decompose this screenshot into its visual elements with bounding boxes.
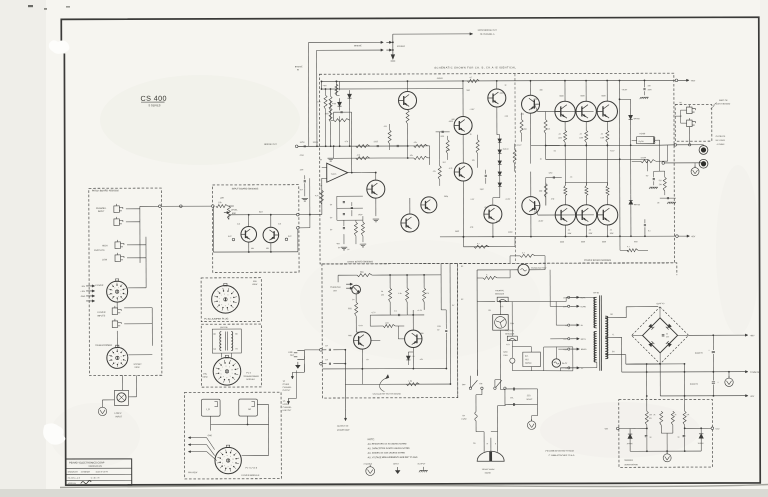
svg-text:DRIVE BOARD 59000600: DRIVE BOARD 59000600: [348, 260, 374, 263]
svg-text:10W: 10W: [589, 233, 593, 235]
svg-text:NOTE:: NOTE:: [368, 439, 375, 441]
svg-text:100k: 100k: [325, 113, 329, 115]
svg-text:-80V: -80V: [750, 396, 755, 398]
svg-text:COMMON: COMMON: [750, 372, 760, 374]
svg-text:4.7k: 4.7k: [345, 141, 349, 143]
svg-text:0/50: 0/50: [634, 241, 638, 243]
svg-text:PART OF: PART OF: [719, 99, 728, 102]
svg-text:10W: 10W: [610, 233, 614, 235]
svg-text:15k: 15k: [649, 414, 652, 416]
svg-text:MATCH BOARD: MATCH BOARD: [716, 102, 731, 105]
svg-text:1N3050: 1N3050: [698, 443, 704, 445]
svg-text:6609: 6609: [581, 241, 585, 243]
svg-text:OUTPUTS: OUTPUTS: [94, 250, 105, 252]
svg-text:HIGH: HIGH: [102, 245, 108, 247]
svg-text:0.1: 0.1: [394, 311, 397, 313]
svg-text:50: 50: [437, 329, 439, 331]
svg-text:1OO: 1OO: [563, 306, 567, 308]
svg-text:120VAC MAIN/: 120VAC MAIN/: [482, 468, 495, 471]
svg-text:2k: 2k: [381, 291, 383, 293]
svg-text:C 13886 ATTACHED TO A.G.: C 13886 ATTACHED TO A.G.: [549, 454, 576, 457]
svg-text:.33: .33: [567, 229, 570, 231]
svg-text:HI: HI: [248, 408, 251, 411]
svg-text:0/50: 0/50: [549, 173, 553, 175]
svg-text:10: 10: [231, 369, 233, 371]
svg-text:4 OHMS: 4 OHMS: [717, 144, 725, 146]
svg-text:BL/YL: BL/YL: [581, 297, 586, 299]
svg-text:8: 8: [121, 356, 122, 358]
svg-text:PILOT: PILOT: [562, 363, 568, 365]
svg-text:S SERIES: S SERIES: [149, 103, 161, 107]
svg-text:PIN: PIN: [253, 281, 257, 283]
svg-text:680: 680: [452, 119, 455, 121]
svg-text:1N3050: 1N3050: [627, 443, 633, 445]
svg-text:3S/13V: 3S/13V: [503, 149, 510, 151]
svg-text:1.3k: 1.3k: [398, 293, 402, 295]
svg-text:+15V: +15V: [715, 428, 720, 430]
svg-text:50VAC: 50VAC: [526, 398, 532, 401]
svg-text:680: 680: [251, 248, 254, 250]
svg-text:CHANNEL: CHANNEL: [283, 386, 292, 389]
svg-text:+0.5V: +0.5V: [610, 150, 616, 152]
svg-text:10: 10: [230, 297, 232, 299]
svg-text:LED: LED: [333, 290, 337, 292]
svg-text:52-5W: 52-5W: [641, 157, 647, 159]
svg-text:590/560: 590/560: [525, 363, 532, 365]
svg-text:APPD BY: APPD BY: [68, 482, 77, 485]
svg-text:MOV: MOV: [503, 352, 508, 354]
svg-text:MAINS: MAINS: [485, 472, 492, 475]
svg-text:YL: YL: [612, 334, 614, 336]
svg-text:2k: 2k: [654, 414, 656, 416]
svg-text:FUSE: FUSE: [462, 419, 468, 421]
svg-text:.33: .33: [610, 229, 613, 231]
svg-text:INPUT: INPUT: [393, 464, 400, 466]
svg-text:4.7: 4.7: [627, 246, 630, 248]
svg-text:LEVEL: LEVEL: [231, 210, 239, 212]
svg-text:PL-6A JUMPER PLUG: PL-6A JUMPER PLUG: [204, 318, 228, 321]
svg-text:2.2k: 2.2k: [237, 224, 240, 226]
svg-text:-15V: -15V: [81, 286, 86, 288]
svg-text:CHANNEL: CHANNEL: [283, 406, 292, 409]
svg-text:6: 6: [222, 459, 223, 461]
svg-text:N.C.: N.C.: [500, 306, 504, 308]
svg-text:MODULE: MODULE: [246, 379, 255, 381]
svg-text:56Ω: 56Ω: [348, 308, 352, 310]
svg-text:OVL: OVL: [510, 397, 514, 399]
svg-text:100/: 100/: [437, 326, 441, 328]
svg-text:150: 150: [524, 129, 527, 131]
svg-text:SOCKET: SOCKET: [133, 364, 142, 366]
svg-text:X OVER: X OVER: [97, 312, 106, 314]
svg-text:CHASSIS: CHASSIS: [364, 463, 373, 466]
svg-text:N.C.: N.C.: [228, 236, 232, 238]
svg-text:220Ω: 220Ω: [508, 232, 513, 234]
svg-text:WR750: WR750: [634, 118, 640, 120]
svg-text:PIN: PIN: [203, 374, 207, 376]
svg-text:PL-2: PL-2: [246, 372, 251, 374]
svg-text:+1.3V: +1.3V: [417, 310, 423, 312]
svg-text:8: 8: [121, 290, 122, 292]
svg-text:INPUTS: INPUTS: [97, 315, 106, 317]
svg-text:47k: 47k: [414, 142, 417, 144]
svg-text:TRANSFORMER: TRANSFORMER: [95, 344, 112, 347]
svg-text:50: 50: [650, 437, 652, 439]
svg-text:+80V: +80V: [750, 335, 755, 337]
svg-text:VIEW: VIEW: [202, 377, 207, 379]
svg-text:100: 100: [647, 85, 650, 87]
svg-text:WR750: WR750: [634, 204, 640, 206]
svg-text:PATCH BOARD 49500810: PATCH BOARD 49500810: [92, 189, 120, 192]
svg-text:CK. BY A - 4 H: CK. BY A - 4 H: [68, 477, 81, 480]
svg-text:390: 390: [539, 90, 542, 92]
svg-text:OUTPUTS: OUTPUTS: [716, 136, 726, 138]
svg-text:N.P.: N.P.: [300, 189, 304, 191]
svg-text:(*)C13886 ATTACHED TO 6018: (*)C13886 ATTACHED TO 6018: [545, 449, 574, 452]
svg-text:X OVER: X OVER: [95, 285, 104, 287]
svg-text:+58.6V: +58.6V: [436, 78, 443, 80]
svg-text:8: 8: [227, 455, 228, 457]
svg-text:CR-60: CR-60: [593, 292, 600, 294]
svg-text:X OVER MODULE: X OVER MODULE: [241, 475, 260, 477]
svg-text:LINE OUT: LINE OUT: [283, 410, 293, 412]
svg-text:2W: 2W: [659, 184, 662, 186]
svg-text:0.1: 0.1: [648, 230, 651, 232]
svg-text:OUTPUT: OUTPUT: [283, 390, 292, 392]
svg-text:LOW Z: LOW Z: [115, 413, 123, 415]
svg-text:59000606: 59000606: [624, 460, 632, 462]
svg-text:18O: 18O: [563, 297, 567, 299]
svg-text:4.7: 4.7: [522, 252, 525, 254]
svg-text:BRIDGE OUT: BRIDGE OUT: [264, 144, 277, 146]
svg-text:10W: 10W: [600, 137, 604, 139]
svg-text:GND: GND: [81, 296, 86, 298]
svg-text:680: 680: [266, 248, 269, 250]
svg-text:VOLTAGE REF ON THIS BOARD: VOLTAGE REF ON THIS BOARD: [372, 392, 401, 395]
svg-text:PIN VIEW: PIN VIEW: [188, 472, 197, 474]
svg-text:-80V: -80V: [691, 236, 696, 238]
svg-text:.33: .33: [579, 133, 582, 135]
svg-text:GND: GND: [208, 435, 213, 437]
svg-text:6609: 6609: [602, 241, 606, 243]
svg-text:1.5k: 1.5k: [317, 101, 321, 103]
svg-text:LDR: LDR: [220, 198, 225, 200]
svg-text:10W: 10W: [567, 233, 571, 235]
svg-text:3: 3: [114, 296, 115, 298]
svg-text:ALL DIODES 1N 4148 UNLESS NO: ALL DIODES 1N 4148 UNLESS NOTED: [368, 451, 406, 454]
svg-text:N.P.: N.P.: [443, 162, 447, 164]
svg-text:30: 30: [666, 333, 668, 335]
svg-text:-13.5V: -13.5V: [505, 199, 511, 201]
svg-text:5.6: 5.6: [659, 180, 662, 182]
svg-text:THERMAL: THERMAL: [495, 289, 504, 292]
svg-text:6609: 6609: [581, 95, 585, 97]
svg-text:+36.6V: +36.6V: [621, 89, 628, 91]
svg-text:+80V: +80V: [690, 80, 695, 82]
svg-text:.22Ω: .22Ω: [526, 395, 531, 397]
svg-text:2: 2: [228, 304, 229, 306]
svg-text:10k: 10k: [472, 160, 475, 162]
svg-text:604 106: 604 106: [220, 327, 228, 329]
svg-text:UPPER: UPPER: [283, 404, 290, 406]
svg-text:4.7k: 4.7k: [315, 195, 319, 197]
svg-text:5W: 5W: [649, 418, 652, 420]
svg-text:O/58: O/58: [300, 155, 304, 157]
svg-text:SCHEMATIC SHOWN FOR CH. B,: SCHEMATIC SHOWN FOR CH. B, CH.A IS IDENT…: [434, 65, 516, 69]
svg-text:ALL VOLTAGE MEASUREMENTS ARE: ALL VOLTAGE MEASUREMENTS ARE REF TO GND: [368, 456, 418, 459]
svg-text:1k: 1k: [540, 159, 542, 161]
svg-text:15k: 15k: [687, 414, 690, 416]
svg-text:BRIDGE: BRIDGE: [295, 66, 303, 68]
svg-text:55 V RMS: 55 V RMS: [716, 140, 726, 142]
svg-text:10W: 10W: [579, 137, 583, 139]
svg-text:OVERLOAD T&W: OVERLOAD T&W: [531, 267, 546, 270]
svg-text:6609: 6609: [602, 95, 606, 97]
svg-text:BL/RD: BL/RD: [581, 306, 587, 308]
svg-text:2/58: 2/58: [300, 169, 304, 171]
svg-text:50: 50: [678, 437, 680, 439]
svg-text:POWER AMP: POWER AMP: [337, 429, 350, 432]
svg-text:4: 4: [223, 376, 224, 378]
svg-text:N.C.: N.C.: [288, 236, 292, 238]
svg-text:SCRIBNER: SCRIBNER: [81, 471, 91, 473]
svg-text:6609: 6609: [560, 241, 564, 243]
svg-text:2.4k: 2.4k: [505, 116, 509, 118]
svg-text:LO: LO: [206, 408, 209, 411]
svg-text:10: 10: [232, 458, 234, 460]
svg-text:.33: .33: [600, 133, 603, 135]
svg-text:HQ-68: HQ-68: [640, 133, 646, 135]
svg-text:4.7k: 4.7k: [357, 155, 361, 157]
svg-text:470k: 470k: [332, 103, 336, 105]
svg-text:+0.7V: +0.7V: [484, 207, 490, 209]
svg-text:-36.6V: -36.6V: [538, 221, 544, 223]
svg-text:OTHER: OTHER: [283, 384, 290, 386]
svg-text:OF CHANNEL A: OF CHANNEL A: [480, 33, 495, 36]
svg-text:100pF: 100pF: [358, 214, 363, 216]
svg-text:N66: N66: [348, 335, 351, 337]
svg-text:4348: 4348: [534, 99, 538, 101]
svg-text:5: 5: [222, 463, 223, 465]
svg-text:.33: .33: [589, 229, 592, 231]
svg-text:ALL CAPACITORS IN MFD UNLES: ALL CAPACITORS IN MFD UNLESS NOTED: [368, 447, 411, 450]
svg-text:5 - 30 - 79: 5 - 30 - 79: [91, 478, 100, 480]
svg-text:POWER BOARD 59000605: POWER BOARD 59000605: [584, 259, 612, 262]
svg-text:47k: 47k: [410, 155, 413, 157]
svg-text:4.7: 4.7: [477, 243, 480, 245]
svg-text:56Ω: 56Ω: [360, 272, 364, 274]
svg-text:2.2k: 2.2k: [278, 223, 281, 225]
svg-text:3: 3: [226, 377, 227, 379]
svg-text:2k: 2k: [675, 414, 677, 416]
svg-text:BR/RD: BR/RD: [581, 349, 587, 351]
svg-text:PL- 6,7 or 8: PL- 6,7 or 8: [245, 466, 257, 469]
svg-text:QUAF 40: QUAF 40: [656, 302, 664, 305]
svg-text:4409: 4409: [500, 93, 504, 95]
svg-text:4409: 4409: [449, 121, 453, 123]
svg-text:TL071: TL071: [331, 174, 338, 176]
svg-text:1k: 1k: [470, 134, 472, 136]
svg-text:TRANSFORMER: TRANSFORMER: [243, 375, 259, 378]
svg-text:STEREO: STEREO: [397, 46, 406, 48]
svg-text:DATE 9-12-78: DATE 9-12-78: [96, 470, 108, 473]
svg-text:.33: .33: [558, 133, 561, 135]
svg-text:INPUT: INPUT: [98, 211, 105, 213]
svg-text:ALL RESISTORS 1/4 W UNLESS N: ALL RESISTORS 1/4 W UNLESS NOTED: [368, 442, 407, 445]
svg-text:.33: .33: [570, 176, 573, 178]
svg-text:560p: 560p: [444, 196, 448, 198]
svg-text:100/25: 100/25: [313, 142, 319, 144]
svg-text:1k: 1k: [504, 85, 506, 87]
svg-text:BREAKER: BREAKER: [505, 332, 515, 335]
svg-text:ZENER BOARD: ZENER BOARD: [624, 463, 638, 466]
svg-text:+13.2V: +13.2V: [516, 145, 523, 147]
svg-text:OUTPUT: OUTPUT: [418, 463, 427, 465]
svg-text:OUTPUT OF: OUTPUT OF: [337, 426, 349, 428]
svg-text:BL: BL: [581, 325, 583, 327]
svg-text:61000/75: 61000/75: [695, 353, 703, 355]
svg-text:.05: .05: [657, 202, 660, 204]
svg-text:3: 3: [115, 362, 116, 364]
svg-text:O18: O18: [563, 349, 566, 351]
svg-text:47k: 47k: [433, 171, 436, 173]
svg-text:2W: 2W: [381, 295, 384, 297]
svg-text:6609: 6609: [560, 95, 564, 97]
svg-text:470: 470: [384, 126, 387, 128]
svg-text:VIEW: VIEW: [252, 284, 257, 286]
svg-text:LINE: LINE: [288, 352, 293, 354]
svg-text:MERIDIAN MS: MERIDIAN MS: [89, 465, 103, 468]
svg-text:18O: 18O: [563, 339, 567, 341]
svg-text:DRAWN BY: DRAWN BY: [68, 471, 79, 474]
svg-text:CS 400: CS 400: [141, 94, 167, 103]
svg-text:+1.6V: +1.6V: [470, 109, 476, 111]
svg-text:BR/YL: BR/YL: [581, 339, 586, 341]
svg-text:BRIDGE: BRIDGE: [354, 45, 362, 47]
svg-text:22/25: 22/25: [374, 141, 379, 143]
svg-text:0.5: 0.5: [548, 129, 551, 131]
svg-text:4.7k: 4.7k: [449, 168, 453, 170]
svg-text:10W: 10W: [558, 137, 562, 139]
svg-text:CHANNEL: CHANNEL: [96, 207, 107, 210]
svg-text:BREAKER: BREAKER: [495, 292, 505, 295]
svg-text:OVERLOAD: OVERLOAD: [330, 286, 341, 289]
svg-text:RyON: RyON: [639, 141, 645, 143]
svg-text:4: 4: [224, 465, 225, 467]
svg-text:61000/75: 61000/75: [690, 384, 698, 386]
svg-text:PEAVEY ELECTRONICS CORP: PEAVEY ELECTRONICS CORP: [69, 461, 105, 464]
svg-text:1.5k: 1.5k: [408, 381, 412, 383]
svg-text:N66: N66: [420, 333, 423, 335]
svg-text:DVL: DVL: [525, 356, 529, 358]
svg-text:130V: 130V: [503, 355, 508, 357]
svg-text:10/50: 10/50: [300, 142, 305, 144]
svg-text:0/50: 0/50: [441, 136, 445, 138]
svg-text:VIEW: VIEW: [134, 367, 139, 369]
svg-text:1.5k: 1.5k: [218, 202, 222, 204]
svg-text:INPUT BOARD 59000605: INPUT BOARD 59000605: [232, 187, 259, 190]
svg-text:FROM BRIDGE OUT: FROM BRIDGE OUT: [478, 30, 498, 32]
svg-text:THERMAL: THERMAL: [505, 329, 514, 332]
svg-text:N.O.: N.O.: [506, 344, 510, 346]
svg-text:47k: 47k: [426, 293, 429, 295]
svg-text:+15V: +15V: [80, 291, 85, 293]
svg-text:4149: 4149: [496, 221, 500, 223]
svg-text:INPUT: INPUT: [116, 416, 123, 418]
svg-text:2: 2: [230, 376, 231, 378]
